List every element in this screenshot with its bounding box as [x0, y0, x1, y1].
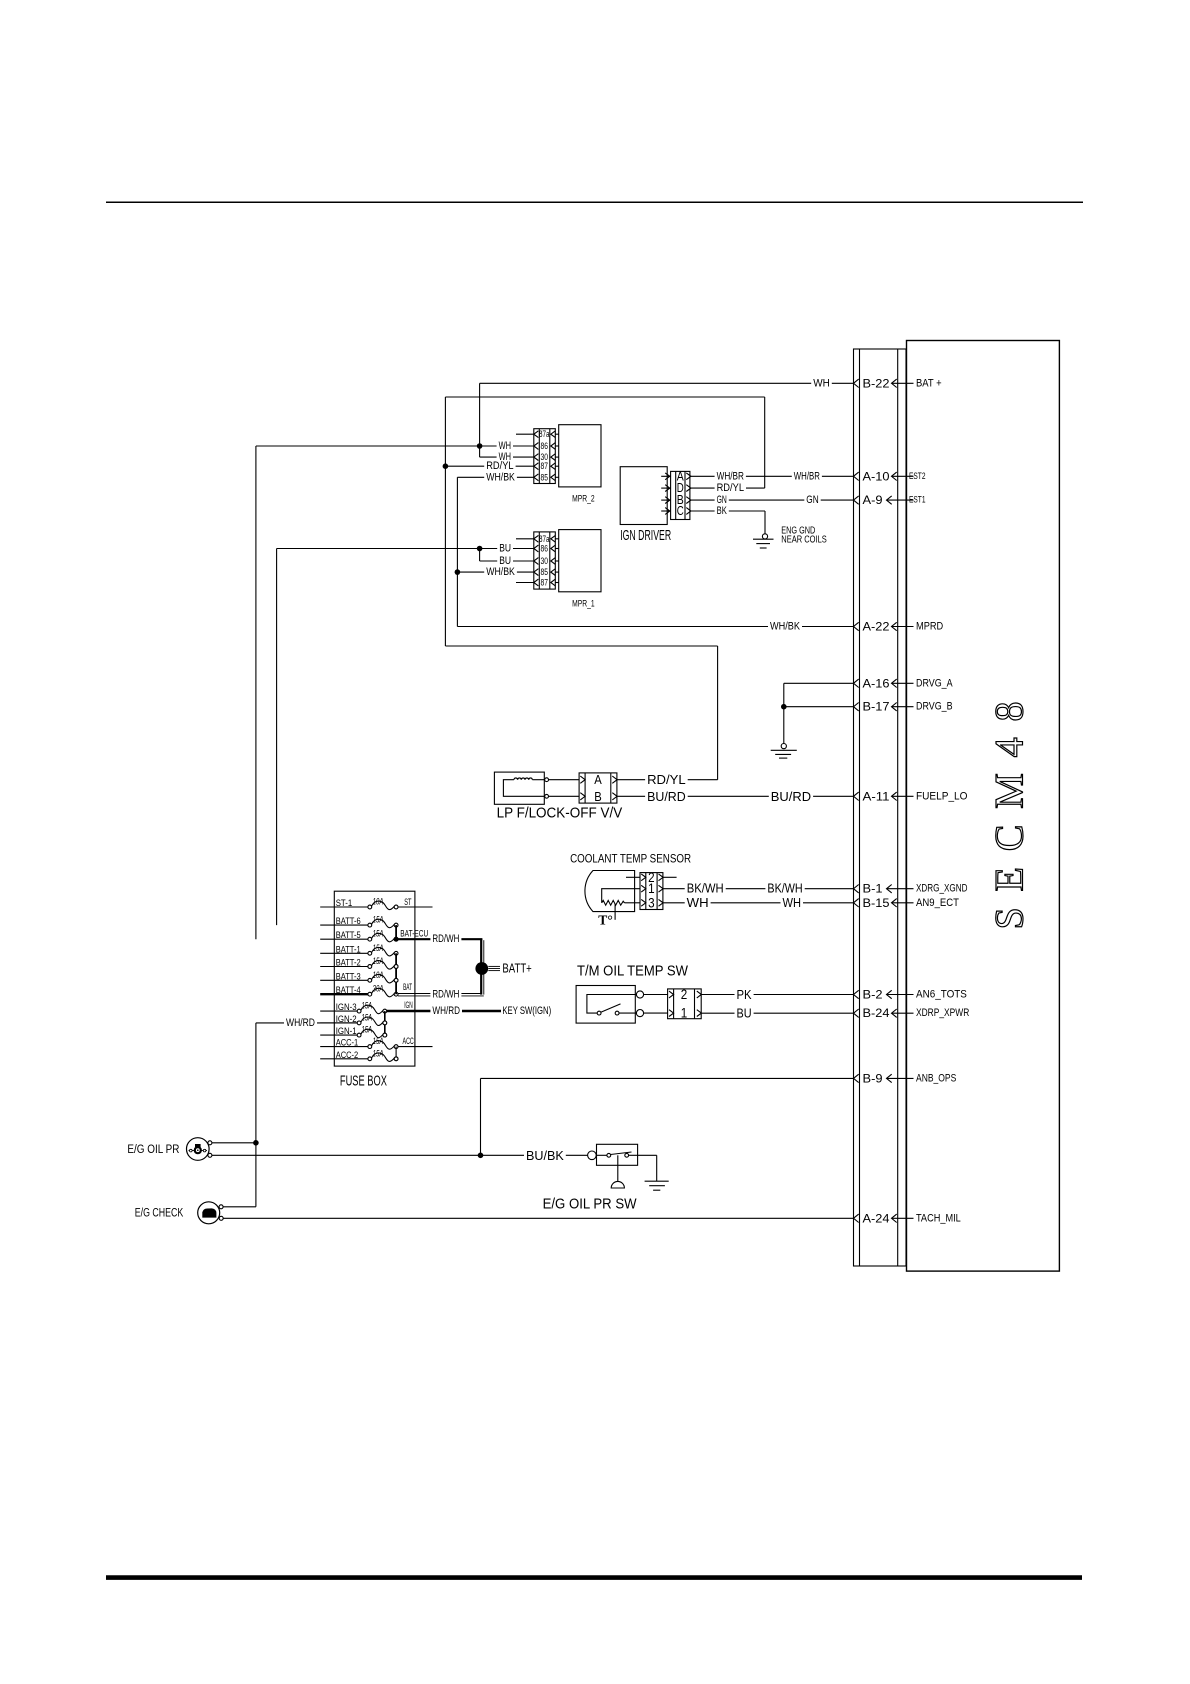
- svg-text:B-1: B-1: [863, 882, 883, 896]
- svg-text:IGN DRIVER: IGN DRIVER: [620, 527, 671, 544]
- pin A-11 / FUELP_LO: [854, 789, 968, 803]
- fuse BATT-6 15A: [320, 915, 398, 928]
- wire TACH_MIL to A-24: [223, 1217, 853, 1219]
- svg-text:IGN-3: IGN-3: [336, 1002, 357, 1013]
- svg-text:T/M OIL TEMP SW: T/M OIL TEMP SW: [577, 962, 689, 979]
- svg-text:PK: PK: [737, 987, 752, 1002]
- svg-text:MPR_1: MPR_1: [572, 598, 595, 609]
- pin B-2 / AN6_TOTS: [854, 988, 967, 1002]
- fuse BATT-5 15A: [320, 929, 398, 942]
- svg-text:E/G OIL PR SW: E/G OIL PR SW: [543, 1196, 637, 1212]
- pin A-24 / TACH_MIL: [854, 1211, 961, 1225]
- svg-text:86: 86: [541, 544, 549, 554]
- wire RD/YL top link: [445, 396, 764, 398]
- pin B-1 / XDRG_XGND: [854, 882, 968, 896]
- pin B-9 / ANB_OPS: [854, 1071, 957, 1085]
- fuse BATT-1 15A: [320, 943, 398, 956]
- svg-text:AN6_TOTS: AN6_TOTS: [916, 989, 967, 1001]
- T/M oil temp switch body: [576, 962, 689, 1023]
- pin A-22 / MPRD: [854, 620, 944, 634]
- pin A-9 / EST1: [854, 493, 926, 507]
- wire GN EST1 to A-9: [691, 499, 854, 501]
- svg-text:DRVG_A: DRVG_A: [916, 677, 953, 689]
- svg-text:B-17: B-17: [863, 700, 890, 714]
- svg-text:85: 85: [541, 472, 549, 482]
- svg-text:BATT-1: BATT-1: [336, 944, 361, 955]
- svg-text:BATT-2: BATT-2: [336, 958, 361, 969]
- svg-text:B-24: B-24: [863, 1006, 890, 1020]
- svg-text:BU/BK: BU/BK: [526, 1148, 564, 1163]
- svg-text:WH/BR: WH/BR: [717, 470, 744, 482]
- wire vertical B-22 drop to MPR_2: [479, 383, 481, 457]
- wire WH to MPR_2 pin 30: [480, 456, 534, 458]
- svg-text:10A: 10A: [373, 897, 384, 907]
- wire WH net B-22 BAT+: [480, 382, 854, 384]
- relay MPR_2 connector: [516, 429, 559, 484]
- wire vertical RD/YL to fuel valve: [717, 646, 719, 780]
- svg-text:COOLANT TEMP SENSOR: COOLANT TEMP SENSOR: [570, 853, 691, 865]
- svg-text:IGN: IGN: [404, 1000, 413, 1010]
- svg-text:IGN-1: IGN-1: [336, 1026, 357, 1037]
- bottom rule line: [106, 1575, 1082, 1580]
- wire BK/WH XDRG_XGND to B-1: [663, 888, 854, 890]
- svg-text:A-9: A-9: [863, 493, 883, 507]
- svg-text:BAT: BAT: [403, 982, 412, 992]
- svg-text:A-10: A-10: [863, 469, 890, 483]
- svg-text:10A: 10A: [373, 970, 384, 980]
- svg-text:B-22: B-22: [863, 376, 890, 390]
- fuse ACC-1 15A: [320, 1036, 398, 1049]
- wire RD/WH BAT feed double line: [398, 993, 481, 995]
- svg-text:A-16: A-16: [863, 676, 890, 690]
- svg-text:BU: BU: [737, 1006, 752, 1021]
- wire WH/BK MPRD to A-22: [457, 626, 853, 628]
- pin B-15 / AN9_ECT: [854, 896, 960, 910]
- pin A-10 / EST2: [854, 469, 926, 483]
- svg-text:C: C: [677, 504, 684, 518]
- relay MPR_1 body: [559, 530, 601, 610]
- svg-text:WH/RD: WH/RD: [432, 1005, 460, 1017]
- svg-text:BU: BU: [499, 543, 511, 555]
- junction WH node: [477, 443, 483, 449]
- pin B-22 / BAT +: [854, 376, 942, 390]
- pin B-24 / XDRP_XPWR: [854, 1006, 970, 1020]
- wire switch to ground: [638, 1154, 657, 1156]
- fuse IGN-3 15A: [320, 1001, 386, 1014]
- svg-text:ACC: ACC: [403, 1036, 415, 1046]
- ignition driver connector: [661, 469, 691, 519]
- svg-text:ST-1: ST-1: [336, 898, 353, 909]
- svg-text:15A: 15A: [373, 915, 384, 925]
- coolant sensor connector 2/1/3: [640, 870, 677, 911]
- svg-text:BATT-3: BATT-3: [336, 971, 361, 982]
- svg-text:87a: 87a: [539, 534, 550, 544]
- ground DRVG_B: [771, 683, 797, 758]
- wire horizontal WH feed MPR_2: [256, 445, 534, 447]
- svg-text:GN: GN: [806, 494, 818, 506]
- svg-text:WH/RD: WH/RD: [286, 1017, 315, 1029]
- switch E/G OIL PR SW: [543, 1144, 638, 1212]
- svg-text:86: 86: [541, 441, 549, 451]
- svg-text:1: 1: [648, 881, 655, 896]
- svg-text:15A: 15A: [373, 1048, 384, 1058]
- wire RD/YL valve pin A: [617, 779, 718, 781]
- fuse BATT-2 15A: [320, 956, 398, 969]
- svg-text:A-11: A-11: [863, 789, 890, 803]
- wire vertical RD/YL from IGN driver: [764, 397, 766, 488]
- svg-text:WH/BR: WH/BR: [794, 470, 820, 482]
- wire PK AN6_TOTS to B-2: [701, 994, 853, 996]
- svg-text:15A: 15A: [361, 1025, 372, 1035]
- svg-text:RD/YL: RD/YL: [647, 772, 686, 787]
- svg-text:15A: 15A: [361, 1001, 372, 1011]
- fuse box outline: [334, 891, 415, 1089]
- wire BU XDRP_XPWR to B-24: [701, 1012, 853, 1014]
- wire lamp to WH/RD: [223, 1206, 256, 1208]
- svg-text:RD/YL: RD/YL: [717, 482, 744, 494]
- junction BAT-ECU node: [394, 937, 399, 942]
- wire ANB_OPS to B-9: [481, 1077, 854, 1079]
- svg-text:3: 3: [648, 895, 655, 910]
- svg-text:BU/RD: BU/RD: [771, 789, 811, 804]
- svg-text:BK/WH: BK/WH: [767, 882, 802, 896]
- svg-text:BATT-6: BATT-6: [336, 916, 361, 927]
- ECU SECM48 box: [907, 341, 1060, 1272]
- svg-text:2: 2: [681, 987, 688, 1002]
- svg-text:1: 1: [681, 1006, 688, 1021]
- svg-text:BATT+: BATT+: [502, 962, 531, 976]
- relay MPR_2 body: [559, 425, 601, 505]
- svg-text:WH/BK: WH/BK: [770, 621, 801, 633]
- svg-text:ACC-2: ACC-2: [336, 1050, 359, 1061]
- svg-text:BAT +: BAT +: [916, 377, 942, 389]
- svg-text:15A: 15A: [373, 956, 384, 966]
- svg-text:15A: 15A: [373, 943, 384, 953]
- svg-text:BATT-4: BATT-4: [336, 985, 361, 996]
- svg-text:B-9: B-9: [863, 1071, 883, 1085]
- pin A-16 / DRVG_A: [854, 676, 954, 690]
- svg-text:DRVG_B: DRVG_B: [916, 701, 953, 713]
- fuse bus BATT-6 to BATT-5: [395, 925, 397, 939]
- svg-text:BK: BK: [717, 505, 728, 517]
- svg-text:B: B: [594, 789, 602, 804]
- svg-text:15A: 15A: [361, 1012, 372, 1022]
- fuse BATT-3 10A: [320, 970, 398, 983]
- svg-text:ST: ST: [404, 897, 412, 907]
- wire RD/YL to MPR_2 pin 87: [445, 465, 533, 467]
- gauge E/G OIL PR: [127, 1138, 211, 1161]
- svg-text:B-2: B-2: [863, 988, 883, 1002]
- junction WH/BK node: [455, 569, 461, 575]
- svg-text:15A: 15A: [373, 1036, 384, 1046]
- fuse BATT-4 30A: [320, 984, 398, 997]
- svg-text:FUSE BOX: FUSE BOX: [340, 1073, 387, 1090]
- fuse IGN-1 15A: [320, 1025, 386, 1038]
- svg-text:KEY SW(IGN): KEY SW(IGN): [502, 1005, 551, 1017]
- svg-text:87a: 87a: [539, 429, 550, 439]
- fuse bus ACC-1..ACC-2: [395, 1047, 397, 1059]
- svg-text:A: A: [594, 772, 602, 787]
- wire RD/YL from driver pin D: [691, 487, 765, 489]
- svg-text:87: 87: [541, 461, 549, 471]
- wire DRVG_A to A-16: [784, 682, 854, 684]
- wire vertical WH/BK: [456, 477, 458, 626]
- svg-text:RD/WH: RD/WH: [432, 989, 459, 1001]
- svg-text:30A: 30A: [373, 984, 384, 994]
- wire WH/BK to MPR_1 pin 85: [457, 571, 533, 573]
- svg-text:87: 87: [541, 578, 549, 588]
- relay MPR_1 connector: [516, 532, 559, 589]
- wire vertical WH to fuse BATT-5: [255, 446, 257, 939]
- svg-text:NEAR COILS: NEAR COILS: [781, 534, 827, 546]
- wire BU feed MPR_1: [277, 548, 534, 550]
- wire BU/RD FUELP_LO to A-11: [617, 795, 854, 797]
- svg-text:30: 30: [541, 556, 549, 566]
- svg-text:WH/BK: WH/BK: [486, 471, 515, 483]
- svg-text:XDRG_XGND: XDRG_XGND: [916, 883, 968, 895]
- wire vertical BU to fuse BATT-6: [276, 549, 278, 926]
- svg-text:EST2: EST2: [909, 471, 926, 482]
- svg-text:MPRD: MPRD: [916, 621, 943, 633]
- coolant temp sensor body: [570, 853, 691, 928]
- svg-text:BU/RD: BU/RD: [647, 789, 686, 804]
- wire gauge to WH/RD node: [212, 1142, 256, 1144]
- fuse bus IGN-3..IGN-1: [384, 1011, 386, 1035]
- svg-text:WH: WH: [687, 896, 709, 910]
- wire WH/BK from MPR_2 pin 85: [457, 476, 533, 478]
- svg-text:A-24: A-24: [863, 1211, 890, 1225]
- svg-text:RD/WH: RD/WH: [432, 933, 459, 945]
- fuse output ST: [398, 906, 433, 908]
- svg-text:FUELP_LO: FUELP_LO: [916, 790, 968, 802]
- fuse ACC-2 15A: [320, 1048, 398, 1061]
- wire BU to MPR_1 pin 30: [479, 549, 481, 562]
- ground ENG GND NEAR COILS: [753, 524, 827, 548]
- wire WH/RD key switch feed: [387, 1010, 501, 1012]
- T/M switch connector 2/1: [644, 987, 702, 1021]
- svg-text:T°: T°: [598, 914, 613, 929]
- svg-text:E/G OIL PR: E/G OIL PR: [127, 1144, 179, 1156]
- svg-text:MPR_2: MPR_2: [572, 494, 595, 505]
- top rule line: [106, 201, 1083, 203]
- pin B-17 / DRVG_B: [854, 700, 953, 714]
- svg-text:LP F/LOCK-OFF V/V: LP F/LOCK-OFF V/V: [497, 805, 623, 822]
- svg-text:TACH_MIL: TACH_MIL: [916, 1212, 961, 1224]
- svg-text:B-15: B-15: [863, 896, 890, 910]
- fuse IGN-2 15A: [320, 1012, 386, 1025]
- wire WH AN9_ECT to B-15: [663, 902, 854, 904]
- svg-text:EST1: EST1: [909, 495, 926, 506]
- wire DRVG_B to B-17: [784, 706, 854, 708]
- svg-text:85: 85: [541, 567, 549, 577]
- svg-text:E/G CHECK: E/G CHECK: [135, 1208, 184, 1220]
- junction BU node: [477, 546, 483, 552]
- wire RD/YL mid link: [445, 645, 717, 647]
- wire BK to engine ground: [691, 510, 765, 512]
- svg-text:BAT-ECU: BAT-ECU: [400, 929, 428, 939]
- ignition driver U1 body: [620, 467, 671, 544]
- wire RD/WH BAT-ECU feed: [398, 938, 482, 940]
- svg-text:BK/WH: BK/WH: [687, 882, 724, 896]
- valve connector A/B: [549, 772, 618, 804]
- fuse ST-1 10A: [320, 897, 398, 910]
- svg-text:WH: WH: [813, 377, 830, 389]
- wire WH/RD to gauges: [256, 1022, 357, 1024]
- fuse output ACC: [398, 1046, 433, 1048]
- solenoid valve LP F/LOCK-OFF V/V: [494, 772, 622, 822]
- junction RD/YL node: [443, 463, 449, 469]
- wire BU/BK oil pressure line: [212, 1154, 588, 1156]
- svg-text:ACC-1: ACC-1: [336, 1038, 359, 1049]
- svg-text:AN9_ECT: AN9_ECT: [916, 897, 959, 909]
- svg-text:WH: WH: [783, 896, 802, 910]
- svg-text:BATT-5: BATT-5: [336, 930, 361, 941]
- battery node BATT+: [475, 962, 531, 976]
- wire vertical ANB_OPS drop: [480, 1078, 482, 1155]
- wire WH/BR EST2 to A-10: [691, 475, 854, 477]
- wire vertical RD/YL: [444, 397, 446, 646]
- fuse bus BATT-1..BATT-4: [395, 953, 397, 994]
- wire vertical WH/RD down: [255, 1023, 257, 1207]
- svg-text:ANB_OPS: ANB_OPS: [916, 1072, 956, 1084]
- wire battery vertical double line: [480, 939, 482, 994]
- svg-text:15A: 15A: [373, 929, 384, 939]
- svg-text:A-22: A-22: [863, 620, 890, 634]
- lamp E/G CHECK: [135, 1202, 223, 1224]
- ground oil pressure switch: [645, 1181, 669, 1190]
- svg-text:XDRP_XPWR: XDRP_XPWR: [916, 1007, 969, 1019]
- SECM48 harness connector strip: [854, 349, 907, 1266]
- svg-text:WH/BK: WH/BK: [486, 566, 515, 578]
